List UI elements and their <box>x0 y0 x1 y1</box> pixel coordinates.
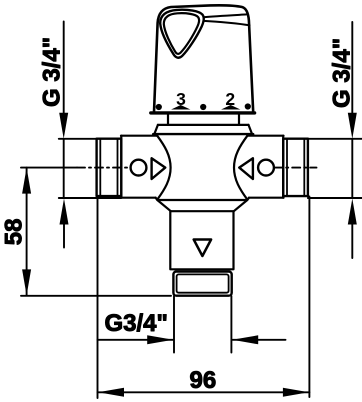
right G3/4 bottom extension line <box>308 197 362 199</box>
union nut inner line <box>177 274 229 292</box>
body-to-outlet trapezoid right diagonal <box>234 200 248 211</box>
svg-text:58: 58 <box>1 218 28 245</box>
right thread relief line a <box>286 139 288 196</box>
collar right side <box>238 114 240 124</box>
knob scale dot middle <box>200 104 206 110</box>
96 left arrow <box>98 388 124 397</box>
left G3/4 bottom tail <box>63 222 65 248</box>
58 dimension line <box>26 168 28 296</box>
knob grip teardrop inner <box>164 13 199 54</box>
right G3/4 dimension line <box>351 139 353 198</box>
right G3/4 bottom tail <box>351 222 353 258</box>
left G3/4 bottom extension line <box>59 197 121 199</box>
centerline left (dash-dot) <box>77 167 130 169</box>
flow symbol triangle left <box>152 158 166 179</box>
58 bottom extension line <box>21 295 171 297</box>
left G3/4 top arrow (down) <box>59 113 68 139</box>
knob scale dot left <box>156 104 162 110</box>
centerline right (dash-dot) <box>274 167 316 169</box>
left thread block <box>97 139 122 196</box>
right shoulder <box>247 134 248 136</box>
body bottom line <box>156 198 249 200</box>
left shoulder <box>156 134 157 136</box>
lower body rectangle <box>170 211 233 269</box>
right thread relief line b <box>303 139 305 196</box>
right G3/4 top arrow (down) <box>348 113 357 139</box>
svg-text:G3/4": G3/4" <box>105 310 168 337</box>
left port face line <box>120 136 122 198</box>
cap top edge <box>158 124 249 126</box>
right thread block <box>283 139 308 196</box>
knob grip teardrop outer <box>160 10 204 58</box>
bottom G3/4 left extension line <box>173 296 175 353</box>
svg-text:G 3/4": G 3/4" <box>39 37 66 107</box>
knob scale dot right <box>245 103 251 109</box>
port top edge right <box>247 135 283 137</box>
port bottom edge left <box>121 197 156 199</box>
flow symbol circle right <box>258 160 274 176</box>
58 top extension line <box>21 167 77 169</box>
96 left extension line <box>97 197 99 398</box>
port bottom edge right <box>249 197 284 199</box>
96 right arrow <box>283 388 309 397</box>
right G3/4 bottom arrow (up) <box>348 199 357 225</box>
96 right extension line <box>308 197 310 398</box>
knob pointer mark under 2 <box>221 105 240 110</box>
body-to-outlet trapezoid left diagonal <box>157 200 171 211</box>
bottom G3/4 dim line right segment <box>232 339 285 341</box>
right G3/4 leader tail <box>351 22 353 115</box>
left G3/4 leader tail <box>63 22 65 116</box>
body waist arc right <box>234 136 247 200</box>
port top edge left <box>121 135 157 137</box>
collar left side <box>167 114 169 124</box>
knob pointer mark under 3 <box>171 105 190 110</box>
knob silhouette <box>154 5 253 112</box>
58 top arrow (up) <box>22 168 31 194</box>
right G3/4 top extension line <box>308 138 362 140</box>
bottom G3/4 right extension line <box>230 296 232 353</box>
flow symbol triangle right <box>239 158 253 179</box>
knob top band line 1 <box>204 14 247 17</box>
knob top band line 2 <box>204 21 250 25</box>
left thread relief line a <box>99 139 101 196</box>
flow symbol circle left <box>131 160 147 176</box>
bottom G3/4 right arrow (left) <box>232 335 258 344</box>
outlet direction mark <box>194 240 211 257</box>
body waist arc left <box>157 136 170 200</box>
svg-text:96: 96 <box>190 367 217 394</box>
right port face line <box>282 136 284 198</box>
bottom G3/4 left arrow (right) <box>147 335 173 344</box>
left thread relief line b <box>117 139 119 196</box>
96 dimension line <box>98 391 310 393</box>
left G3/4 top extension line <box>59 138 97 140</box>
58 bottom arrow (down) <box>22 269 31 295</box>
cap bottom edge <box>153 133 253 135</box>
bottom G3/4 dim line left segment <box>98 339 174 341</box>
knob bottom edge <box>151 111 255 114</box>
left G3/4 bottom arrow (up) <box>60 199 69 225</box>
cap left slant <box>154 125 158 134</box>
cap right slant <box>249 125 253 134</box>
union nut outer <box>173 272 231 296</box>
left G3/4 dimension line <box>63 139 65 198</box>
